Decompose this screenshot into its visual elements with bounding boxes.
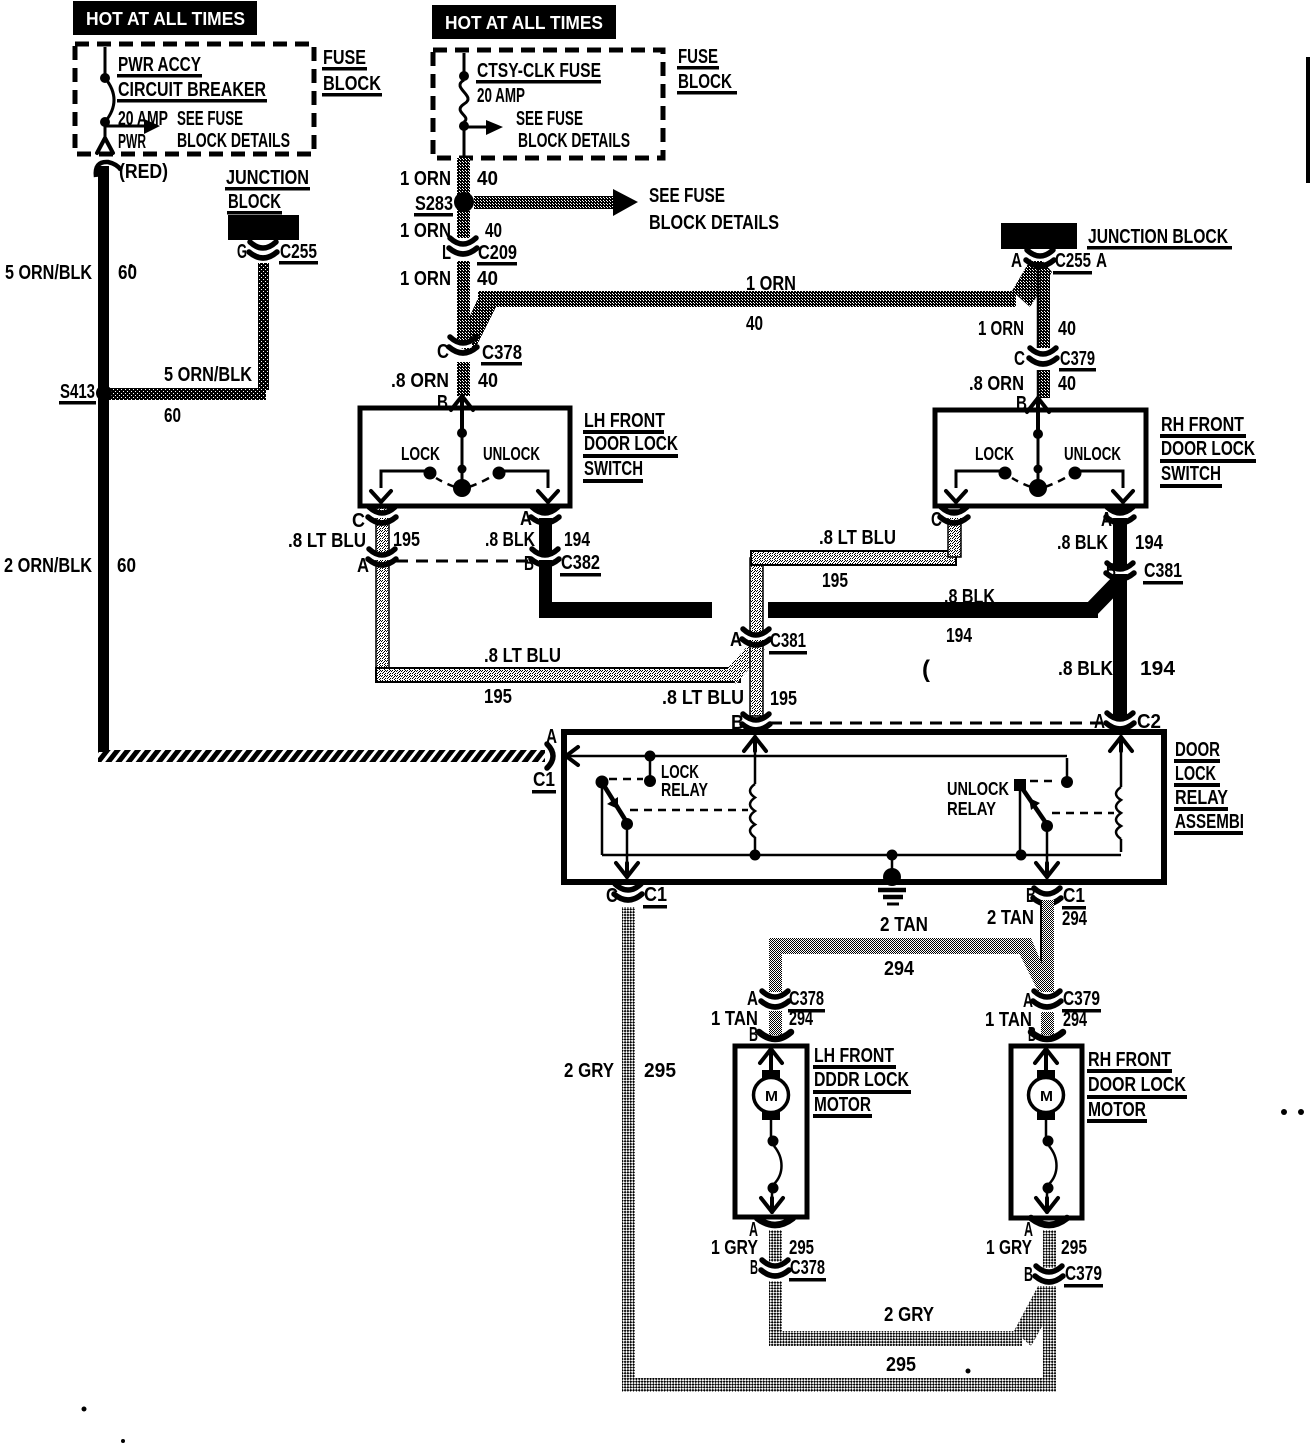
svg-text:M: M — [765, 1088, 778, 1105]
wire 2 GRY LH down and right — [769, 1281, 782, 1338]
svg-text:C382: C382 — [561, 552, 600, 574]
connector pin A gulls (RH switch) — [1111, 513, 1129, 518]
svg-text:.8 BLK: .8 BLK — [485, 529, 535, 551]
svg-text:40: 40 — [746, 313, 763, 335]
connector B gulls (relay top) — [747, 720, 765, 725]
svg-text:A: A — [1101, 509, 1112, 531]
svg-text:LH FRONT: LH FRONT — [814, 1045, 894, 1067]
wire 2 ORN/BLK horizontal to relay — [98, 750, 545, 762]
lock relay pivot stem — [601, 788, 604, 855]
svg-text:1 ORN: 1 ORN — [400, 168, 451, 190]
wire .8 ORN into LH switch — [457, 362, 470, 396]
connector A gulls (LH, C382) — [373, 555, 391, 560]
unlock relay coil — [1110, 737, 1132, 751]
svg-text:C379: C379 — [1060, 348, 1095, 370]
svg-text:G: G — [237, 241, 247, 263]
svg-text:JUNCTION: JUNCTION — [226, 167, 309, 189]
dashed connector line relay C1/C2 — [770, 722, 1110, 725]
svg-text:C379: C379 — [1063, 988, 1100, 1010]
svg-text:B: B — [1028, 1024, 1036, 1046]
svg-text:B: B — [524, 553, 534, 575]
svg-text:DOOR LOCK: DOOR LOCK — [1161, 438, 1255, 460]
svg-text:.8 ORN: .8 ORN — [969, 373, 1024, 395]
svg-text:1 GRY: 1 GRY — [711, 1237, 759, 1259]
svg-text:.8 LT BLU: .8 LT BLU — [288, 530, 366, 552]
svg-text:S283: S283 — [415, 193, 453, 215]
connector C255 (left) gulls — [254, 248, 272, 253]
relay pin B connector — [1038, 894, 1056, 899]
LH switch contacts and arms — [424, 467, 437, 480]
svg-text:1 ORN: 1 ORN — [978, 318, 1024, 340]
wire .8 BLK thick horizontal (194) — [539, 602, 712, 618]
svg-text:.8 LT BLU: .8 LT BLU — [484, 645, 561, 667]
connector C378 gulls (LH motor) — [766, 997, 784, 1002]
svg-text:20 AMP: 20 AMP — [477, 85, 525, 107]
lock relay branch dot — [645, 751, 656, 762]
LH front door lock motor box — [735, 1046, 807, 1217]
svg-text:LH FRONT: LH FRONT — [584, 410, 665, 432]
svg-text:SEE FUSE: SEE FUSE — [516, 108, 583, 130]
RH switch contacts and arms — [999, 467, 1012, 480]
svg-text:(RED): (RED) — [119, 161, 168, 183]
wire 2 TAN from relay B down — [1041, 900, 1054, 992]
svg-text:195: 195 — [484, 686, 512, 708]
svg-text:B: B — [750, 1257, 758, 1279]
svg-text:BLOCK: BLOCK — [678, 71, 732, 93]
dashed connector line C382 — [396, 560, 531, 563]
svg-text:295: 295 — [644, 1060, 676, 1082]
terminal (RED) hook — [96, 162, 121, 177]
lock relay fixed contact — [649, 756, 652, 776]
terminal arrow pin B LH switch — [451, 396, 473, 410]
svg-text:1 TAN: 1 TAN — [985, 1009, 1032, 1031]
connector C255 A gulls — [1031, 256, 1049, 261]
svg-text:A: A — [520, 508, 532, 530]
svg-text:2 ORN/BLK: 2 ORN/BLK — [4, 555, 92, 577]
connector pin A gull (LH motor bottom) — [757, 1218, 793, 1225]
svg-text:ASSEMBI: ASSEMBI — [1175, 811, 1244, 833]
svg-text:PWR: PWR — [118, 131, 146, 153]
ground — [891, 855, 894, 870]
connector C2 gulls (relay pin A) — [1111, 719, 1129, 724]
svg-text:PWR ACCY: PWR ACCY — [118, 54, 201, 76]
RH motor internal switch — [1043, 1136, 1054, 1147]
wire 2 TAN horizontal — [769, 938, 1022, 954]
wire .8 LT BLU vertical at C381 — [750, 558, 763, 716]
svg-text:B: B — [749, 1024, 758, 1046]
svg-text:40: 40 — [477, 168, 498, 190]
RH switch internal common — [1037, 412, 1040, 482]
wire 1 GRY RH — [1043, 1230, 1056, 1268]
connector pin A gulls (LH switch) — [536, 513, 554, 518]
svg-text:1 GRY: 1 GRY — [986, 1237, 1033, 1259]
svg-text:.8 BLK: .8 BLK — [1057, 532, 1108, 554]
wire 2 ORN/BLK vertical — [98, 394, 109, 752]
connector B gull (LH motor) — [759, 1032, 791, 1039]
svg-text:1 ORN: 1 ORN — [400, 220, 451, 242]
svg-text:A: A — [1011, 250, 1022, 272]
svg-text:CTSY-CLK FUSE: CTSY-CLK FUSE — [477, 60, 601, 82]
circuit breaker CB (PWR ACCY) symbol — [104, 47, 107, 74]
svg-text:2 GRY: 2 GRY — [564, 1060, 615, 1082]
svg-text:5 ORN/BLK: 5 ORN/BLK — [164, 364, 252, 386]
relay pin C connector — [619, 890, 637, 895]
wire .8 BLK RH A down — [1113, 508, 1127, 718]
wire 1 TAN RH drop — [1041, 1012, 1054, 1035]
svg-text:60: 60 — [117, 555, 136, 577]
connector C209 gulls — [454, 244, 472, 249]
svg-text:HOT AT ALL TIMES: HOT AT ALL TIMES — [86, 9, 245, 29]
svg-text:SWITCH: SWITCH — [584, 458, 643, 480]
junction block 2 (filled) — [1001, 223, 1077, 249]
svg-text:294: 294 — [1063, 1009, 1088, 1031]
svg-text:40: 40 — [1058, 373, 1076, 395]
unlock relay fixed contact — [1066, 758, 1069, 777]
LH front door lock switch box — [360, 408, 570, 506]
wire 2 GRY bottom horizontal — [622, 1378, 1054, 1392]
svg-text:B: B — [1024, 1264, 1033, 1286]
svg-text:40: 40 — [485, 220, 502, 242]
lock relay dashed coil link — [630, 809, 748, 812]
svg-text:C1: C1 — [1063, 885, 1085, 907]
svg-text:C378: C378 — [790, 1257, 825, 1279]
svg-text:194: 194 — [1135, 532, 1164, 554]
wire .8 ORN into RH switch — [1037, 370, 1050, 398]
unlock relay dashed contact link — [1030, 780, 1058, 783]
wire 1 ORN branch to junction block (diagonals+horizontal) — [456, 294, 497, 353]
svg-text:194: 194 — [946, 625, 973, 647]
svg-text:LOCK: LOCK — [975, 444, 1014, 464]
ground junction dot — [887, 850, 898, 861]
LH motor internal switch — [768, 1136, 779, 1147]
splice S413 — [96, 385, 112, 401]
connector C381 gulls (A, lt blu) — [747, 635, 765, 640]
connector pin C gulls (LH switch) — [373, 513, 391, 518]
wire .8 BLK LH A down — [539, 508, 552, 604]
svg-text:B: B — [437, 392, 448, 414]
svg-text:S413: S413 — [60, 381, 95, 403]
wire 1 GRY LH — [769, 1230, 782, 1262]
svg-text:294: 294 — [884, 958, 915, 980]
unlock relay dashed coil link — [1052, 812, 1114, 815]
lock relay pivot — [596, 776, 609, 789]
wire .8 LT BLU up to RH pin C — [948, 510, 961, 557]
svg-text:A: A — [546, 726, 557, 748]
svg-text:C379: C379 — [1065, 1263, 1102, 1285]
svg-text:C1: C1 — [533, 769, 555, 791]
lock relay moving contact — [621, 818, 633, 830]
svg-text:L: L — [442, 242, 451, 264]
wire 1 TAN LH drop — [769, 952, 782, 992]
svg-text:C: C — [1014, 348, 1025, 370]
svg-text:UNLOCK: UNLOCK — [947, 779, 1009, 799]
stray dots — [1281, 1109, 1287, 1115]
svg-text:BLOCK DETAILS: BLOCK DETAILS — [177, 130, 290, 152]
svg-text:C1: C1 — [644, 884, 667, 906]
svg-text:.8 LT BLU: .8 LT BLU — [662, 687, 744, 709]
svg-text:C381: C381 — [1144, 560, 1182, 582]
junction block 1 (filled) — [228, 215, 299, 240]
connector C381 gulls (B, blk) — [1111, 569, 1129, 574]
svg-text:294: 294 — [789, 1008, 814, 1030]
connector C379 gulls (RH bottom) — [1040, 1272, 1058, 1277]
svg-text:C: C — [931, 509, 942, 531]
svg-text:.8 BLK: .8 BLK — [944, 586, 995, 608]
wire .8 LT BLU diagonal up to C381 — [726, 641, 765, 684]
svg-text:C255: C255 — [1055, 250, 1091, 272]
wire 5 ORN/BLK vertical from circuit breaker — [98, 166, 109, 394]
svg-text:LOCK: LOCK — [1175, 763, 1216, 785]
unlock relay moving contact — [1041, 820, 1053, 832]
svg-text:20 AMP: 20 AMP — [118, 108, 168, 130]
svg-text:SWITCH: SWITCH — [1161, 463, 1221, 485]
wire 1 ORN vertical to C379 — [1037, 270, 1050, 348]
svg-text:.8 BLK: .8 BLK — [1058, 658, 1113, 680]
svg-text:BLOCK DETAILS: BLOCK DETAILS — [649, 212, 779, 234]
svg-text:1 ORN: 1 ORN — [746, 273, 796, 295]
connector pin C gulls (RH switch) — [945, 513, 963, 518]
fuse CTSY-CLK symbol — [463, 53, 466, 72]
svg-text:195: 195 — [822, 570, 848, 592]
svg-text:DOOR: DOOR — [1175, 739, 1220, 761]
svg-text:BLOCK: BLOCK — [323, 73, 381, 95]
svg-text:SEE FUSE: SEE FUSE — [649, 185, 725, 207]
lock relay armature — [603, 784, 626, 821]
lock relay dashed contact link — [609, 778, 643, 781]
wire .8 LT BLU horizontal (lower left) — [376, 668, 740, 682]
splice S283 — [454, 192, 474, 212]
wire 1 ORN vertical C209-C378 — [457, 261, 470, 339]
svg-text:SEE FUSE: SEE FUSE — [177, 108, 243, 130]
svg-text:A: A — [747, 988, 758, 1010]
svg-text:DOOR LOCK: DOOR LOCK — [584, 433, 678, 455]
svg-text:DDDR LOCK: DDDR LOCK — [814, 1069, 909, 1091]
svg-text:60: 60 — [164, 405, 181, 427]
wire .8 LT BLU LH C down — [376, 508, 389, 674]
svg-text:40: 40 — [1058, 318, 1076, 340]
wire 1 ORN vertical below fuse 2 — [457, 158, 470, 238]
connector pin A gull (RH motor bottom) — [1031, 1218, 1067, 1225]
unlock relay pivot stem — [1019, 791, 1022, 855]
svg-text:.8 ORN: .8 ORN — [391, 370, 449, 392]
svg-text:294: 294 — [1062, 908, 1088, 930]
svg-text:LOCK: LOCK — [401, 444, 440, 464]
svg-text:C209: C209 — [478, 242, 517, 264]
svg-text:CIRCUIT BREAKER: CIRCUIT BREAKER — [118, 79, 266, 101]
wire 1 TAN into LH motor — [769, 1011, 782, 1035]
svg-text:60: 60 — [118, 262, 137, 284]
svg-text:RELAY: RELAY — [661, 780, 708, 800]
svg-text:RH FRONT: RH FRONT — [1088, 1049, 1171, 1071]
relay internal top line — [566, 755, 1067, 758]
svg-text:C381: C381 — [770, 630, 806, 652]
svg-text:C255: C255 — [280, 241, 317, 263]
svg-text:1 ORN: 1 ORN — [400, 268, 451, 290]
svg-text:C: C — [437, 341, 449, 363]
door lock relay assembly box — [564, 732, 1164, 882]
lock relay coil — [744, 737, 766, 751]
LH motor symbol — [760, 1049, 782, 1063]
unlock relay pivot — [1014, 779, 1026, 791]
svg-text:5 ORN/BLK: 5 ORN/BLK — [5, 262, 92, 284]
svg-text:RH FRONT: RH FRONT — [1161, 414, 1244, 436]
svg-text:A: A — [357, 555, 369, 577]
svg-text:295: 295 — [886, 1354, 916, 1376]
svg-text:MOTOR: MOTOR — [1088, 1099, 1146, 1121]
lock relay arm to pin C — [626, 824, 629, 864]
svg-text:HOT AT ALL TIMES: HOT AT ALL TIMES — [445, 13, 603, 33]
svg-text:JUNCTION BLOCK: JUNCTION BLOCK — [1088, 226, 1228, 248]
svg-text:C: C — [352, 510, 365, 532]
svg-text:FUSE: FUSE — [678, 46, 718, 68]
wire 5 ORN/BLK horizontal from S413 — [104, 388, 266, 400]
svg-text:DOOR LOCK: DOOR LOCK — [1088, 1074, 1186, 1096]
svg-text:194: 194 — [1140, 658, 1176, 680]
wire 2 GRY from relay C down — [622, 907, 635, 1385]
unlock relay arm to pin B — [1046, 826, 1049, 864]
terminal arrow pin B RH switch — [1027, 398, 1049, 412]
svg-text:C378: C378 — [789, 988, 824, 1010]
scan edge artifact — [1306, 57, 1310, 183]
wire 5 ORN/BLK to C255 vertical — [258, 263, 269, 390]
svg-text:C: C — [606, 885, 618, 907]
connector C378 gulls (LH bottom) — [766, 1266, 784, 1271]
RH front door lock motor box — [1011, 1046, 1082, 1218]
svg-text:C378: C378 — [482, 342, 522, 364]
lock coil junction dot — [750, 850, 761, 861]
connector C378 gulls (top) — [454, 343, 472, 348]
unlock relay armature — [1022, 788, 1046, 823]
wire arrow SEE FUSE BLOCK DETAILS — [474, 196, 613, 209]
label HOT AT ALL TIMES (left) — [73, 1, 257, 35]
svg-text:40: 40 — [477, 268, 498, 290]
svg-text:A: A — [1096, 250, 1107, 272]
svg-text:295: 295 — [789, 1237, 814, 1259]
svg-text:FUSE: FUSE — [323, 47, 366, 69]
svg-text:40: 40 — [478, 370, 498, 392]
svg-text:2 TAN: 2 TAN — [880, 914, 928, 936]
svg-text:UNLOCK: UNLOCK — [483, 444, 540, 464]
svg-text:M: M — [1040, 1088, 1053, 1105]
RH front door lock switch box — [935, 410, 1146, 506]
connector C382 gulls (B side) — [536, 555, 554, 560]
fuse block 2 dashed outline — [433, 50, 663, 158]
svg-text:B: B — [1026, 885, 1036, 907]
connector B gull (RH motor) — [1031, 1032, 1063, 1039]
fuse block 1 dashed outline — [75, 44, 314, 154]
relay pin A connector (left) — [547, 744, 553, 768]
RH motor symbol — [1035, 1049, 1057, 1063]
svg-text:UNLOCK: UNLOCK — [1064, 444, 1121, 464]
wire .8 LT BLU horizontal (upper right) — [751, 551, 956, 565]
LH switch internal common — [461, 410, 464, 482]
svg-text:LOCK: LOCK — [661, 762, 699, 782]
connector C379 gulls (top right) — [1034, 354, 1052, 359]
relay internal bottom line — [602, 854, 1121, 857]
svg-text:2 GRY: 2 GRY — [884, 1304, 935, 1326]
svg-text:.8 LT BLU: .8 LT BLU — [819, 527, 896, 549]
svg-text:BLOCK: BLOCK — [228, 191, 281, 213]
svg-text:194: 194 — [564, 529, 591, 551]
svg-text:RELAY: RELAY — [1175, 787, 1229, 809]
svg-text:(: ( — [922, 656, 930, 683]
svg-text:B: B — [1106, 560, 1116, 582]
svg-text:295: 295 — [1061, 1237, 1087, 1259]
svg-text:195: 195 — [770, 688, 797, 710]
label HOT AT ALL TIMES (center) — [432, 5, 616, 39]
connector C379 gulls (RH motor) — [1038, 997, 1056, 1002]
svg-text:MOTOR: MOTOR — [814, 1094, 871, 1116]
svg-text:2 TAN: 2 TAN — [987, 907, 1034, 929]
svg-text:BLOCK DETAILS: BLOCK DETAILS — [518, 130, 630, 152]
wire 2 GRY RH vertical — [1043, 1286, 1056, 1392]
svg-text:RELAY: RELAY — [947, 799, 996, 819]
svg-text:A: A — [730, 629, 742, 651]
